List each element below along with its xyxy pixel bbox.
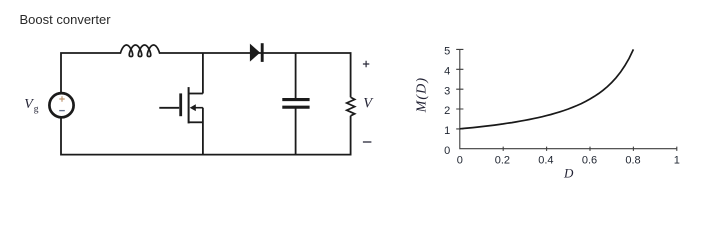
- svg-text:0.8: 0.8: [625, 154, 640, 166]
- svg-text:0.4: 0.4: [538, 154, 553, 166]
- svg-text:0.6: 0.6: [582, 154, 597, 166]
- chart axes: [460, 49, 677, 148]
- svg-text:g: g: [34, 105, 39, 115]
- svg-text:V: V: [24, 97, 34, 112]
- wire top-right with corner: [160, 53, 351, 97]
- svg-text:5: 5: [444, 46, 450, 58]
- wire capacitor top lead: [295, 53, 297, 100]
- voltage source Vg circle: [49, 93, 73, 117]
- wire drain branch: [202, 53, 204, 94]
- svg-text:2: 2: [444, 105, 450, 117]
- resistor R load zigzag: [347, 97, 355, 116]
- svg-text:4: 4: [444, 65, 450, 77]
- wire capacitor bottom lead: [295, 107, 297, 155]
- label plus output: [363, 61, 369, 67]
- MOSFET Q1 channel: [188, 87, 190, 123]
- MOSFET Q1 source stub: [189, 121, 203, 123]
- svg-text:3: 3: [444, 85, 450, 97]
- MOSFET Q1 drain stub: [189, 93, 203, 95]
- label minus output: [363, 141, 372, 143]
- MOSFET Q1 gate lead: [159, 107, 179, 109]
- svg-text:D: D: [563, 165, 574, 180]
- svg-text:V: V: [363, 96, 374, 112]
- wire top-left: [61, 53, 121, 92]
- svg-text:1: 1: [674, 154, 680, 166]
- capacitor C bottom plate: [282, 106, 309, 109]
- svg-text:0: 0: [457, 154, 463, 166]
- chart y ticks: [456, 49, 463, 128]
- diode D1 triangle: [250, 44, 260, 62]
- svg-text:Boost converter: Boost converter: [20, 12, 112, 27]
- voltage source minus sign: [59, 110, 65, 112]
- svg-text:0: 0: [444, 145, 450, 157]
- chart x ticks: [503, 147, 677, 151]
- inductor L coil: [120, 45, 160, 57]
- wire source branch: [202, 108, 204, 155]
- wire bottom and right-bottom: [61, 116, 351, 155]
- capacitor C top plate: [282, 98, 309, 101]
- voltage source plus sign: [59, 96, 64, 101]
- MOSFET Q1 gate bar: [179, 93, 182, 116]
- svg-text:1: 1: [444, 125, 450, 137]
- svg-text:M(D): M(D): [414, 77, 429, 114]
- MOSFET Q1 body arrow tail: [195, 107, 203, 109]
- svg-text:0.2: 0.2: [495, 154, 510, 166]
- diode D1 cathode bar: [261, 43, 264, 62]
- chart curve M(D)=1/(1-D): [460, 49, 634, 128]
- MOSFET Q1 body arrowhead: [190, 104, 196, 111]
